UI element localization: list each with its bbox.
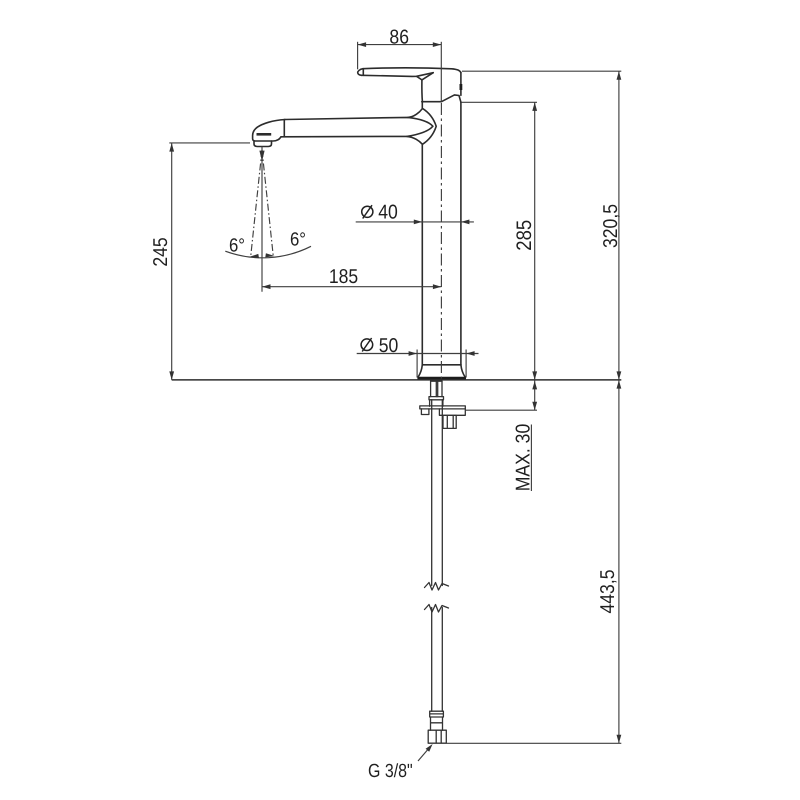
svg-text:50: 50 (379, 335, 399, 357)
svg-text:185: 185 (329, 266, 358, 288)
compression ring band (430, 711, 444, 717)
dia symbol for 50 (361, 338, 373, 352)
arrow dia40 left (414, 220, 423, 225)
arrow dia50 left (409, 351, 418, 356)
MAX30 bottom extension (466, 409, 538, 411)
body flare joint line (422, 364, 461, 366)
mounting stud below base (431, 381, 442, 397)
arrow 285 top (532, 102, 537, 111)
arrow G3/8 leader (426, 744, 433, 752)
arrow 320.5 top (617, 71, 622, 80)
spray nozzle nub (259, 151, 264, 162)
arrow MAX30 top (532, 381, 537, 390)
dim dia50 line (357, 353, 479, 355)
washer left tab (421, 409, 429, 415)
pipe break symbol upper (425, 583, 449, 591)
stud top edge (431, 380, 442, 382)
dim 245 line (171, 143, 173, 380)
svg-text:245: 245 (150, 237, 172, 266)
spout underside (281, 126, 433, 137)
dia symbol for 40 (362, 205, 373, 218)
supply pipe lower section (432, 608, 443, 712)
horseshoe washer plate (420, 406, 466, 409)
spray dash-dot left 6deg (251, 150, 262, 257)
aerator (254, 141, 272, 147)
arrow 86 left (358, 42, 367, 47)
svg-text:6°: 6° (290, 230, 306, 251)
dim 86 right extension (440, 42, 442, 102)
arrow 245 top (169, 143, 174, 152)
dim 86 line (358, 44, 442, 46)
fitting body (431, 717, 443, 730)
svg-text:86: 86 (389, 27, 409, 49)
handle base right edge (460, 73, 462, 96)
svg-text:40: 40 (378, 202, 398, 224)
handle lever top (363, 68, 461, 73)
svg-text:285: 285 (513, 220, 536, 251)
stud collar (429, 397, 444, 400)
handle lever underside (362, 73, 434, 77)
svg-text:G 3/8": G 3/8" (368, 761, 413, 782)
handle lever tip (358, 69, 363, 76)
dim 285 top extension (462, 101, 538, 103)
base flare right (461, 365, 465, 377)
svg-text:6°: 6° (229, 236, 245, 257)
swing arc (225, 246, 311, 258)
spout seam line (283, 120, 285, 137)
dia50 extension right (465, 350, 467, 378)
handle base bottom edges (441, 95, 461, 102)
spout top edge (285, 117, 433, 126)
supply pipe upper section (432, 400, 443, 586)
handle joint notch (417, 73, 434, 80)
arrow 185 left (262, 284, 271, 289)
body top edge (422, 101, 442, 103)
arrow 86 right (433, 42, 442, 47)
dim dia40 line (356, 221, 474, 223)
arrow dia40 right (461, 220, 470, 225)
washer right block (439, 409, 465, 415)
spray dash-dot right 6deg (262, 150, 273, 257)
svg-text:443,5: 443,5 (597, 569, 619, 613)
svg-text:MAX. 30: MAX. 30 (513, 424, 535, 491)
arrow swing arc left (250, 254, 260, 258)
spout bottom fork curve to body (407, 136, 422, 144)
arrow swing arc right (265, 253, 274, 257)
MAX30 underline (530, 425, 532, 492)
locking nut (443, 415, 456, 428)
arrow 320.5 bottom (617, 371, 622, 380)
arrow 443.5 top (617, 380, 622, 389)
body left edge upper + junction outer bulge (422, 102, 436, 365)
arrow MAX30 bottom (532, 402, 537, 411)
G3/8 leader line (418, 747, 430, 761)
dim 320.5 and 443.5 vertical line (618, 71, 620, 743)
G3/8 nut (428, 730, 446, 743)
counter mounting surface line (172, 379, 622, 381)
dim 245 top extension (169, 142, 250, 144)
cartridge dome left edge (421, 80, 424, 102)
spout head left profile (253, 120, 285, 142)
arrow 285 bottom (532, 371, 537, 380)
arrow 245 bottom (169, 371, 174, 380)
spray center line (261, 147, 263, 292)
handle lever tip cap seam (362, 69, 364, 75)
base flare left (418, 365, 422, 377)
spout slot detail (257, 133, 272, 136)
svg-text:320,5: 320,5 (600, 204, 622, 248)
arrow 443.5 bottom (617, 735, 622, 744)
dim 86 left extension (357, 42, 359, 70)
body right edge (460, 102, 462, 365)
arrow 185 right (433, 284, 442, 289)
dim 320.5 top extension (462, 70, 621, 72)
dia50 extension left (416, 350, 418, 378)
handle right edge tick (459, 84, 462, 90)
dim 443.5 bottom extension (447, 742, 622, 744)
collar lower sleeve (430, 400, 443, 407)
centerline of body (440, 103, 442, 379)
base bottom thick edge (417, 377, 466, 380)
dim 185 line (262, 286, 441, 288)
spout top fork curve to body (408, 109, 422, 118)
dim 285 + MAX30 vertical line (534, 102, 536, 410)
pipe break symbol lower (425, 605, 449, 613)
arrow dia50 right (466, 351, 475, 356)
